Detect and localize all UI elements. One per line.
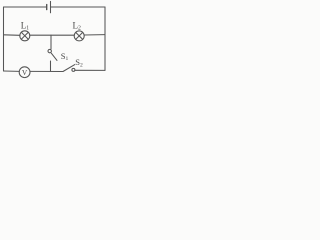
wire middle left (border to L1) xyxy=(4,34,20,37)
switch S1 pivot circle xyxy=(48,49,51,52)
wire top-right segment xyxy=(51,6,106,8)
wire bottom-left segment xyxy=(4,70,20,72)
wire bottom middle segment xyxy=(30,70,63,72)
wire top-left segment xyxy=(4,6,47,8)
wire left border xyxy=(3,7,5,71)
battery cell short plate (negative) xyxy=(46,5,48,10)
switch S2 blade xyxy=(63,65,75,72)
svg-text:V: V xyxy=(22,68,28,77)
wire S1 branch upper xyxy=(50,35,52,49)
wire right border xyxy=(104,7,106,70)
battery cell long plate (positive) xyxy=(50,1,52,12)
wire S1 branch lower xyxy=(50,61,52,71)
switch S2 contact circle xyxy=(72,68,75,71)
lamp L2 xyxy=(74,31,84,41)
voltmeter V1 xyxy=(19,67,30,78)
switch S1 blade xyxy=(51,53,57,60)
wire bottom-right segment xyxy=(75,69,105,71)
wire middle right (L2 to border) xyxy=(84,34,105,36)
wire middle center (L1 to L2) xyxy=(30,34,74,36)
lamp L1 xyxy=(20,31,30,41)
